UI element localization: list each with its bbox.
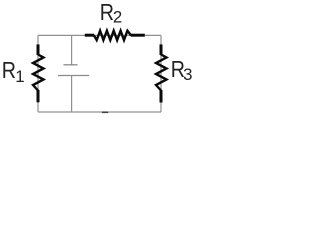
resistor R1 — [37, 44, 40, 55]
svg-text:3: 3 — [183, 65, 192, 84]
svg-text:2: 2 — [113, 8, 122, 27]
node dark segment on bottom wire — [102, 111, 108, 113]
wire capacitor bottom stub — [71, 76, 73, 113]
wire right — [160, 35, 162, 112]
resistor R2 — [85, 34, 94, 37]
wire capacitor top stub — [71, 35, 73, 64]
wire top — [38, 34, 161, 36]
svg-text:R: R — [2, 58, 16, 84]
svg-text:R: R — [100, 0, 114, 25]
wire bottom — [38, 111, 161, 113]
capacitor C1 bottom plate — [58, 75, 89, 77]
capacitor C1 top plate — [64, 64, 78, 66]
resistor R3 — [160, 44, 163, 55]
wire left — [37, 35, 39, 112]
svg-text:1: 1 — [15, 67, 24, 86]
